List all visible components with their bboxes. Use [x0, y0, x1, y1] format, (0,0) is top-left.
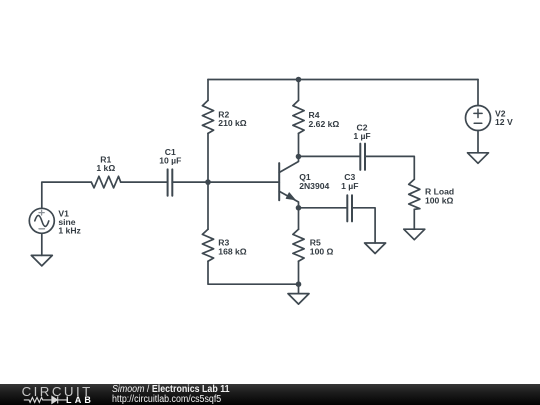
V1 sine wave: [35, 215, 49, 226]
transistor Q1 emitter stroke: [279, 191, 298, 208]
svg-text:1 µF: 1 µF: [353, 131, 370, 141]
wire R Load bottom lead: [413, 209, 415, 229]
capacitor C2 plates: [360, 144, 365, 170]
capacitor C1 plates: [168, 169, 173, 195]
transistor Q1 base bar: [278, 163, 280, 200]
footer credit text: [112, 385, 230, 405]
voltage source V1 body: [29, 208, 54, 233]
svg-text:2.62 kΩ: 2.62 kΩ: [309, 119, 340, 129]
wire top rail V+: [208, 79, 478, 81]
voltage source V2 body: [466, 106, 491, 131]
svg-text:210 kΩ: 210 kΩ: [218, 118, 247, 128]
svg-text:1 µF: 1 µF: [341, 181, 358, 191]
wire C3 to ground: [352, 208, 375, 243]
svg-text:1 kΩ: 1 kΩ: [96, 163, 115, 173]
node emitter junction: [296, 205, 302, 211]
node ground junction: [296, 281, 302, 287]
wire R2 top lead: [207, 80, 209, 101]
wire ground stub at node: [298, 284, 300, 293]
wire C1 to base (through node): [172, 181, 279, 183]
wire V2 bottom lead: [477, 131, 479, 153]
ground below R3 R5: [288, 294, 309, 305]
capacitor C3 plates: [347, 195, 352, 221]
CircuitLab logo squiggle resistor diode: [23, 395, 69, 405]
V1 minus sign: [39, 228, 45, 230]
ground below C3: [365, 243, 386, 254]
V2 plus sign: [474, 109, 482, 117]
resistor R2: [202, 100, 213, 133]
CircuitLab logo text LAB: [66, 395, 94, 405]
wire R4 top lead: [298, 80, 300, 101]
ground below V1: [31, 255, 52, 266]
wire R5 bottom to ground node: [298, 261, 300, 284]
wire R1 to C1: [121, 181, 168, 183]
node collector junction: [296, 154, 302, 160]
V2 minus sign: [474, 122, 482, 124]
node top rail R4 junction: [296, 77, 302, 83]
wire C2 to R Load: [365, 156, 414, 179]
wire V1 bottom lead: [41, 233, 43, 255]
V1 plus sign: [39, 210, 44, 215]
resistor R4: [293, 100, 304, 133]
ground below V2: [468, 153, 489, 164]
wire R2 bottom lead to base node: [207, 133, 209, 182]
wire R5 top lead: [298, 208, 300, 230]
svg-text:1 kHz: 1 kHz: [58, 226, 80, 236]
resistor R Load: [409, 179, 420, 209]
svg-text:100 Ω: 100 Ω: [310, 246, 334, 256]
CircuitLab logo text CIRCUIT: [22, 384, 93, 399]
footer bar: [0, 384, 540, 405]
resistor R1: [91, 176, 120, 188]
svg-text:12 V: 12 V: [495, 117, 513, 127]
transistor Q1 emitter arrow: [286, 193, 295, 200]
wire R3 top lead: [207, 182, 209, 229]
wire collector to C2: [299, 155, 361, 157]
resistor R5: [293, 229, 304, 261]
wire R4 bottom lead to collector node: [298, 133, 300, 156]
resistor R3: [202, 229, 213, 261]
transistor Q1 collector stroke: [279, 157, 298, 173]
svg-text:168 kΩ: 168 kΩ: [218, 246, 247, 256]
wire V1 top lead to R1: [42, 182, 92, 208]
svg-text:2N3904: 2N3904: [299, 181, 329, 191]
wire V2 top lead: [477, 80, 479, 106]
node base divider junction: [205, 179, 211, 185]
wire emitter to C3: [299, 207, 348, 209]
ground below R Load: [404, 229, 425, 240]
svg-text:10 µF: 10 µF: [159, 156, 181, 166]
wire R3 bottom to ground node: [208, 261, 299, 284]
svg-text:100 kΩ: 100 kΩ: [425, 195, 454, 205]
